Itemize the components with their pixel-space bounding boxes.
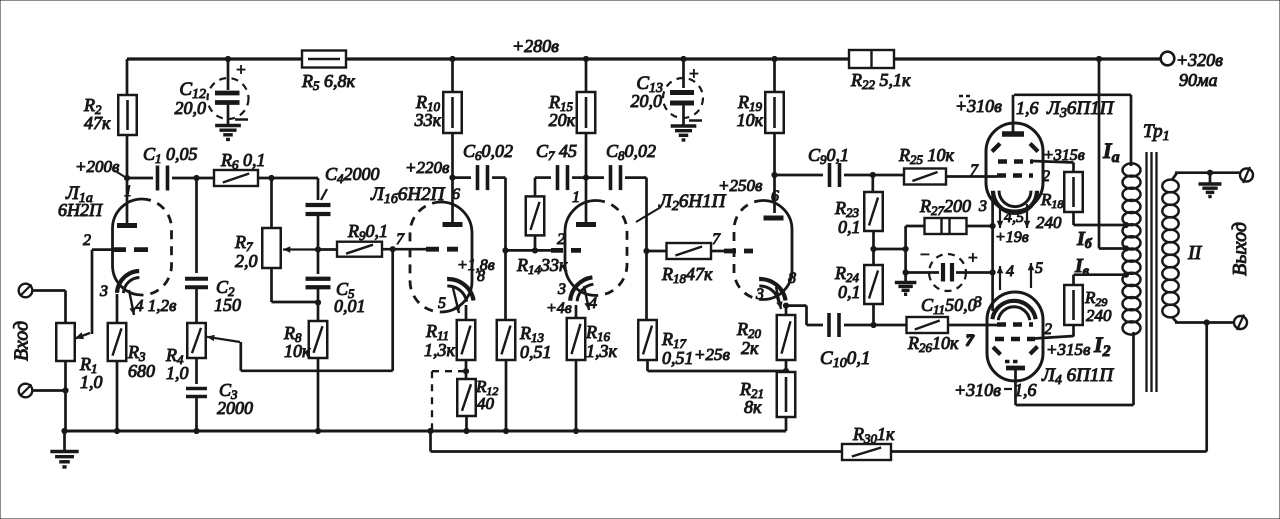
svg-text:4: 4 — [1006, 263, 1014, 280]
svg-text:4,5: 4,5 — [1004, 209, 1024, 226]
svg-text:+250в: +250в — [718, 176, 763, 195]
svg-text:1: 1 — [572, 189, 580, 206]
svg-text:II: II — [1187, 242, 1203, 264]
svg-text:+315в: +315в — [1043, 147, 1085, 164]
svg-text:7: 7 — [712, 231, 721, 248]
svg-text:+315в: +315в — [1046, 340, 1091, 359]
svg-text:680: 680 — [128, 361, 155, 381]
svg-text:0,1: 0,1 — [838, 282, 861, 302]
svg-text:7: 7 — [966, 333, 975, 350]
svg-text:Л1б6Н2П: Л1б6Н2П — [370, 184, 446, 207]
svg-text:0,51: 0,51 — [662, 348, 694, 368]
svg-text:+19в: +19в — [995, 229, 1029, 246]
svg-text:С7 45: С7 45 — [536, 141, 577, 163]
svg-text:8к: 8к — [744, 397, 762, 417]
svg-text:Л36П1П: Л36П1П — [1046, 98, 1115, 121]
svg-text:10к: 10к — [284, 341, 311, 361]
svg-text:С60,02: С60,02 — [463, 141, 513, 163]
svg-text:2: 2 — [1042, 168, 1050, 185]
svg-text:+280в: +280в — [512, 36, 559, 56]
svg-text:1: 1 — [124, 183, 132, 200]
svg-text:240: 240 — [1086, 306, 1112, 325]
svg-text:2000: 2000 — [217, 398, 253, 418]
svg-text:0,51: 0,51 — [520, 342, 552, 362]
svg-text:−: − — [919, 245, 930, 264]
svg-text:Вход: Вход — [11, 321, 33, 361]
svg-text:3: 3 — [755, 286, 764, 303]
svg-text:40: 40 — [477, 394, 495, 413]
svg-text:+310в: +310в — [954, 380, 1001, 400]
svg-text:3: 3 — [557, 281, 566, 298]
svg-text:33к: 33к — [414, 110, 442, 130]
svg-text:R90,1: R90,1 — [347, 221, 388, 243]
svg-text:20,0: 20,0 — [631, 91, 663, 111]
svg-text:Л4 6П1П: Л4 6П1П — [1041, 365, 1114, 388]
svg-text:3: 3 — [978, 198, 987, 215]
svg-text:0,1: 0,1 — [838, 217, 861, 237]
svg-text:47к: 47к — [84, 113, 111, 133]
svg-text:+220в: +220в — [405, 158, 450, 177]
svg-text:1,3к: 1,3к — [586, 341, 618, 361]
svg-text:R22 5,1к: R22 5,1к — [850, 70, 911, 92]
svg-text:1,0: 1,0 — [80, 372, 103, 392]
svg-text:+1,8в: +1,8в — [457, 257, 495, 274]
svg-text:7: 7 — [970, 162, 979, 179]
svg-text:R6 0,1: R6 0,1 — [220, 150, 266, 172]
svg-text:R25 10к: R25 10к — [898, 145, 955, 167]
svg-text:240: 240 — [1036, 213, 1062, 232]
svg-text:+4в: +4в — [546, 300, 572, 317]
svg-text:5: 5 — [1035, 260, 1043, 277]
svg-text:С1150,0: С1150,0 — [921, 295, 977, 317]
svg-text:2к: 2к — [741, 338, 759, 358]
svg-text:6Н2П: 6Н2П — [58, 200, 103, 220]
svg-text:1,6: 1,6 — [1016, 98, 1039, 118]
svg-text:4 1,2в: 4 1,2в — [135, 296, 177, 315]
svg-text:R2610к: R2610к — [907, 333, 959, 355]
svg-text:+25в: +25в — [694, 345, 730, 364]
svg-text:5: 5 — [438, 295, 446, 312]
svg-text:Выход: Выход — [1229, 222, 1251, 276]
svg-text:150: 150 — [214, 295, 241, 315]
svg-text:8: 8 — [477, 268, 485, 285]
svg-text:3: 3 — [973, 294, 982, 311]
svg-text:20,0: 20,0 — [175, 98, 207, 118]
svg-text:20к: 20к — [549, 110, 576, 130]
svg-text:1,3к: 1,3к — [424, 340, 456, 360]
svg-text:6: 6 — [452, 186, 460, 203]
svg-text:8: 8 — [788, 270, 796, 287]
svg-text:+200в: +200в — [75, 157, 120, 176]
svg-text:С1 0,05: С1 0,05 — [143, 144, 198, 166]
svg-text:+320в: +320в — [1176, 50, 1223, 70]
svg-text:С42000: С42000 — [325, 164, 380, 186]
svg-text:Л26Н1П: Л26Н1П — [658, 191, 727, 214]
svg-text:R27200: R27200 — [919, 196, 971, 218]
svg-text:2: 2 — [83, 232, 91, 249]
svg-text:2,0: 2,0 — [235, 251, 258, 271]
svg-text:+310в: +310в — [955, 96, 1002, 116]
svg-text:10к: 10к — [737, 110, 764, 130]
svg-text:1,6: 1,6 — [1014, 380, 1037, 400]
svg-text:R5 6,8к: R5 6,8к — [301, 71, 356, 93]
svg-text:1,0: 1,0 — [166, 363, 189, 383]
svg-text:С90,1: С90,1 — [808, 145, 849, 167]
svg-text:R1433к: R1433к — [516, 255, 568, 277]
svg-text:+: + — [967, 248, 978, 267]
svg-text:+: + — [236, 60, 246, 79]
svg-text:90ма: 90ма — [1179, 70, 1218, 90]
svg-text:+: + — [688, 64, 699, 83]
svg-text:3: 3 — [99, 283, 108, 300]
svg-text:0,01: 0,01 — [334, 296, 366, 316]
svg-text:7: 7 — [396, 231, 405, 248]
svg-text:R1847к: R1847к — [661, 264, 713, 286]
svg-text:С80,02: С80,02 — [606, 141, 656, 163]
svg-text:4: 4 — [589, 295, 597, 312]
svg-text:2: 2 — [1044, 321, 1052, 338]
